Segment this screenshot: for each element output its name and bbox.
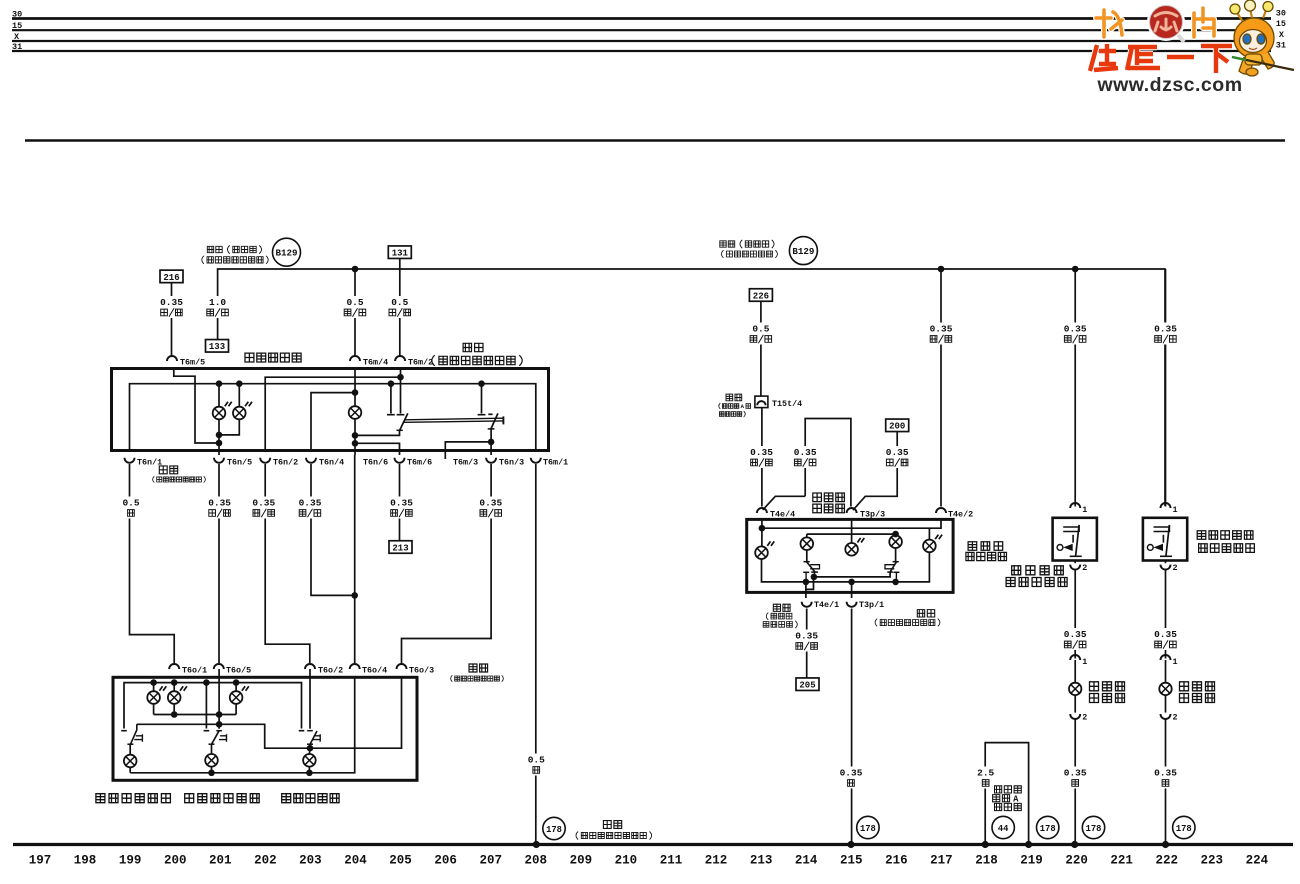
pin 1 passenger mirror switch xyxy=(1161,503,1171,508)
svg-text:223: 223 xyxy=(1201,854,1224,868)
label (在驾驶室线束内) xyxy=(202,256,268,264)
wire rail2 box3 xyxy=(806,534,808,537)
svg-text:209: 209 xyxy=(570,854,593,868)
label (在前部车内灯上) below box1 xyxy=(153,476,206,482)
svg-text:T6m/6: T6m/6 xyxy=(407,458,432,468)
svg-text:T3p/1: T3p/1 xyxy=(859,600,884,610)
current track 200 xyxy=(886,419,909,432)
wire T3p/1 to ground bus xyxy=(851,609,853,846)
svg-text:0.5: 0.5 xyxy=(528,755,545,766)
switch B box3 xyxy=(895,548,897,562)
wire to T4e/1 xyxy=(805,589,807,598)
label 阅读灯 xyxy=(813,504,845,513)
wire feed to T4e/2 xyxy=(940,269,942,507)
svg-text:178: 178 xyxy=(546,825,562,835)
pin T4e/2 xyxy=(936,508,946,513)
svg-text:31: 31 xyxy=(1276,40,1286,50)
wire 0.35 红/灰 xyxy=(1062,628,1088,650)
wire lamps bottom rail box2 xyxy=(153,704,155,715)
svg-text:178: 178 xyxy=(860,824,876,834)
label 插头 below box3 L xyxy=(773,604,790,611)
svg-text:T6o/1: T6o/1 xyxy=(182,666,207,676)
pin 2 driver mirror switch xyxy=(1070,565,1080,570)
svg-text:T6m/3: T6m/3 xyxy=(453,458,478,468)
label (在右前阅读灯上) xyxy=(875,619,940,627)
svg-text:0.5: 0.5 xyxy=(752,324,769,335)
sw1 contact tick xyxy=(121,730,127,732)
wire rail3 box3 xyxy=(814,572,890,577)
wire switch2 to T6n/3 xyxy=(490,429,492,455)
svg-text:0.35: 0.35 xyxy=(1064,324,1087,335)
wire 0.35 灰/蓝 xyxy=(207,497,233,519)
box: front reading light unit xyxy=(747,519,953,592)
wire 131 to T6m/2 xyxy=(399,259,401,357)
lamp pin 1 xyxy=(1070,655,1080,660)
lamp rear interior xyxy=(230,686,249,704)
wire rail A inside box1 xyxy=(265,377,400,450)
svg-text:T6n/5: T6n/5 xyxy=(227,458,252,468)
wire switch to lamp xyxy=(1074,569,1076,659)
svg-text:217: 217 xyxy=(930,854,953,868)
lamp vanity mirror passenger xyxy=(1159,683,1171,695)
connector pin T6m/2 xyxy=(395,356,405,361)
svg-text:215: 215 xyxy=(840,854,863,868)
wire mid rail box2 xyxy=(137,677,402,748)
svg-text:198: 198 xyxy=(74,854,97,868)
svg-text:B129: B129 xyxy=(792,246,814,257)
junction on feed rail (driver mirror drop) xyxy=(1072,266,1079,273)
wire switch to lamp xyxy=(1165,569,1167,659)
wire rail4 box3 xyxy=(762,552,930,582)
svg-text:205: 205 xyxy=(799,681,815,691)
wire 0.5 棕 xyxy=(523,754,549,776)
switch1 rear: blade xyxy=(131,724,137,744)
lamp driver reading 2 xyxy=(801,537,814,550)
lamp rear lower xyxy=(303,754,316,767)
pin T4e/1 xyxy=(802,602,812,607)
lamp rear-left lower xyxy=(124,755,137,768)
wire 0.35 红/黄 xyxy=(928,323,954,345)
current track 133 xyxy=(206,340,229,353)
lamp driver reading 1 xyxy=(755,541,774,559)
svg-text:T6o/5: T6o/5 xyxy=(226,666,251,676)
wire bottom rail box2 xyxy=(129,767,131,772)
connector B129 (right) xyxy=(789,237,817,265)
svg-text:1.0: 1.0 xyxy=(209,297,226,308)
label 化妆镜开关 xyxy=(1006,578,1067,587)
label (在后部车内灯上) xyxy=(451,675,504,681)
pin T6o/2 xyxy=(305,664,315,669)
lamp pin 1 xyxy=(1161,655,1171,660)
lamp rear left reading xyxy=(147,686,166,704)
svg-text:0.35: 0.35 xyxy=(795,631,818,642)
pin T6o/4 xyxy=(350,664,360,669)
svg-text:0.35: 0.35 xyxy=(886,447,909,458)
svg-text:205: 205 xyxy=(389,854,412,868)
wire T6m/2 to switch contact xyxy=(400,369,402,414)
label (在滑动车顶线束内) xyxy=(576,832,652,840)
wire label 0.5 棕/白 xyxy=(387,296,413,318)
svg-text:218: 218 xyxy=(975,854,998,868)
svg-text:226: 226 xyxy=(753,291,769,301)
svg-text:0.35: 0.35 xyxy=(1154,629,1177,640)
svg-text:X: X xyxy=(14,32,20,42)
wire T6m/4 drop xyxy=(354,269,356,356)
svg-text:0.5: 0.5 xyxy=(346,297,363,308)
ground 44 xyxy=(992,816,1014,838)
svg-text:197: 197 xyxy=(29,854,52,868)
label 照明灯 xyxy=(1090,694,1125,703)
svg-text:202: 202 xyxy=(254,854,277,868)
wire T6m/6 to 213 xyxy=(399,464,401,541)
wire 0.35 红/黄 xyxy=(1062,323,1088,345)
switch contact tick xyxy=(478,414,486,416)
ground 178 (roof harness) xyxy=(543,817,565,839)
lamp vanity mirror driver xyxy=(1069,683,1081,695)
connector T15t/4 xyxy=(755,396,768,408)
wire 0.35 红/绿 xyxy=(389,497,415,519)
svg-text:2: 2 xyxy=(1173,713,1178,723)
wire 0.35 棕 xyxy=(1153,767,1179,789)
svg-text:1: 1 xyxy=(1173,505,1178,515)
svg-text:X: X xyxy=(1279,30,1285,40)
svg-text:204: 204 xyxy=(344,854,367,868)
svg-text:0.35: 0.35 xyxy=(750,447,773,458)
label 前部车内灯 xyxy=(245,353,301,362)
lamp rear right reading xyxy=(168,686,187,704)
T4e/1 step xyxy=(806,577,814,590)
svg-text:0.35: 0.35 xyxy=(794,447,817,458)
svg-text:30: 30 xyxy=(12,10,22,20)
wire 0.35 棕/紫 xyxy=(478,497,504,519)
svg-text:213: 213 xyxy=(750,854,773,868)
svg-text:1: 1 xyxy=(1173,657,1178,667)
svg-text:T6n/6: T6n/6 xyxy=(363,458,388,468)
svg-text:T6o/4: T6o/4 xyxy=(362,666,387,676)
label 后部车内灯 xyxy=(282,794,339,803)
svg-text:T6n/2: T6n/2 xyxy=(273,458,298,468)
label 化妆镜 xyxy=(1090,682,1125,691)
wire 200 to T3p/3 xyxy=(853,432,897,511)
svg-text:0.35: 0.35 xyxy=(252,498,275,509)
label 插头 below box1 xyxy=(159,466,177,474)
svg-text:2: 2 xyxy=(1082,563,1087,573)
wire 2.5 棕 xyxy=(973,767,999,789)
box: rear interior light unit xyxy=(113,677,417,780)
svg-text:T6n/3: T6n/3 xyxy=(499,458,524,468)
svg-text:178: 178 xyxy=(1176,824,1192,834)
label 插头 below box3 R xyxy=(917,610,934,617)
pin T4e/4 xyxy=(757,508,767,513)
svg-text:T6n/1: T6n/1 xyxy=(137,458,162,468)
pin 1 driver mirror switch xyxy=(1070,503,1080,508)
pin T6o/3 xyxy=(397,664,407,669)
current track 131 xyxy=(388,246,411,259)
lamp pin 2 xyxy=(1070,714,1080,719)
label 化妆镜 xyxy=(1180,682,1215,691)
switch 2 blade xyxy=(491,413,498,429)
wire T6m/5 jog inside box1 xyxy=(174,369,219,444)
pin T6o/5 xyxy=(214,664,224,669)
label 接地 xyxy=(603,821,621,829)
svg-text:T6m/5: T6m/5 xyxy=(180,358,205,368)
svg-text:15: 15 xyxy=(12,21,22,31)
svg-text:0.35: 0.35 xyxy=(1154,768,1177,779)
label (在车内线束内) xyxy=(721,250,777,258)
svg-text:T6n/4: T6n/4 xyxy=(319,458,344,468)
svg-text:0.35: 0.35 xyxy=(1064,768,1087,779)
svg-text:www.dzsc.com: www.dzsc.com xyxy=(1096,74,1242,96)
bus line 30 xyxy=(12,17,1271,20)
junction on feed rail (T6m/4 drop) xyxy=(352,266,359,273)
ground 178 xyxy=(857,816,879,838)
label 分线器上) xyxy=(719,411,745,417)
wire 0.35 红/绿 xyxy=(794,630,820,652)
bus line 15 xyxy=(12,29,1271,31)
svg-text:T6m/4: T6m/4 xyxy=(363,358,388,368)
label 插头 (above box1) xyxy=(463,343,483,351)
pin T6o/1 xyxy=(169,664,179,669)
lamp: front dome light xyxy=(349,406,362,419)
label (在左侧A柱 xyxy=(719,403,751,409)
lamp5 stub xyxy=(928,528,930,540)
label 驾驶员 xyxy=(813,493,845,502)
label 副驾驶员侧 xyxy=(1197,531,1253,540)
switch arm tick xyxy=(397,429,403,431)
sw2 contact tick xyxy=(204,730,210,732)
stub rail B to switch2 contact xyxy=(481,384,483,414)
svg-text:210: 210 xyxy=(615,854,638,868)
wire: main interior-light feed rail xyxy=(218,269,1165,506)
wire 0.35 棕/白 xyxy=(251,497,277,519)
switch2 rear: blade from T6o/5 xyxy=(218,669,220,729)
switch contact tick xyxy=(387,414,395,416)
svg-text:T6o/3: T6o/3 xyxy=(409,666,434,676)
svg-text:199: 199 xyxy=(119,854,142,868)
wire lamp to ground bus xyxy=(1074,719,1076,846)
bus line X xyxy=(12,40,1271,42)
svg-text:0.35: 0.35 xyxy=(208,498,231,509)
svg-text:T15t/4: T15t/4 xyxy=(772,399,802,409)
wire 216 to T6m/5 xyxy=(171,283,173,356)
svg-text:216: 216 xyxy=(163,273,179,283)
wire T15t/4 to T4e/4 xyxy=(761,408,763,507)
lamp passenger reading 4 xyxy=(889,535,902,548)
wire 0.35 灰/蓝 xyxy=(792,446,818,468)
wire to T6m/6 xyxy=(355,443,400,455)
svg-text:B129: B129 xyxy=(275,248,297,259)
label 左侧A xyxy=(993,795,1010,802)
label (在前部车内灯上) xyxy=(432,355,522,366)
svg-text:T6m/2: T6m/2 xyxy=(408,358,433,368)
wire label 1.0 红/黄 xyxy=(205,296,231,318)
switch3 rear: blade from T6o/2 xyxy=(309,669,311,729)
junction on feed rail (T4e/2 drop) xyxy=(938,266,945,273)
wire lamp to T6n/6 xyxy=(354,419,356,455)
wire T4e/1 to 205 xyxy=(806,609,808,679)
connector B129 (left) xyxy=(273,238,301,266)
connector pin T6m/5 xyxy=(167,356,177,361)
svg-text:1: 1 xyxy=(1082,505,1087,515)
svg-text:216: 216 xyxy=(885,854,908,868)
wire pi-jumper to T4e/4 and T3p/3 xyxy=(805,419,851,507)
label 接地点 xyxy=(995,786,1022,793)
svg-text:200: 200 xyxy=(164,854,187,868)
ground 178 xyxy=(1037,816,1059,838)
svg-text:203: 203 xyxy=(299,854,322,868)
svg-text:221: 221 xyxy=(1110,854,1133,868)
wire 0.35 红/黄 xyxy=(1153,323,1179,345)
wire T6n/5 to T6o/5 xyxy=(218,464,220,664)
svg-text:0.35: 0.35 xyxy=(1064,629,1087,640)
wire stub rail B to switch contact xyxy=(390,384,392,414)
svg-text:0.35: 0.35 xyxy=(930,324,953,335)
wire 0.35 棕 xyxy=(838,767,864,789)
svg-text:133: 133 xyxy=(209,342,225,352)
label 照明灯 xyxy=(1180,694,1215,703)
switch: driver vanity mirror xyxy=(1053,518,1097,561)
current track 213 xyxy=(389,541,412,554)
switch A box3 xyxy=(806,550,808,562)
svg-text:2: 2 xyxy=(1173,563,1178,573)
sw3 contact tick xyxy=(299,730,305,732)
wire 0.35 灰/蓝 xyxy=(749,446,775,468)
lamp rear-right lower xyxy=(205,754,218,767)
wire ground point loop xyxy=(985,743,1028,845)
lamp front reading 3 xyxy=(845,538,864,556)
lamp pin 2 xyxy=(1161,714,1171,719)
svg-text:200: 200 xyxy=(889,422,905,432)
label 左后部阅读灯 xyxy=(96,794,170,803)
switch contact tick xyxy=(397,414,405,416)
wire rail B inside box1 xyxy=(130,384,536,451)
svg-text:T4e/1: T4e/1 xyxy=(814,600,839,610)
wire label 0.5 红/黄 xyxy=(342,296,368,318)
svg-text:213: 213 xyxy=(392,543,408,553)
ground 178 xyxy=(1173,816,1195,838)
svg-text:0.5: 0.5 xyxy=(122,498,139,509)
wire 0.5 棕 xyxy=(118,497,144,519)
wire feed to driver mirror switch xyxy=(1074,269,1076,507)
pin T3p/1 xyxy=(847,602,857,607)
wire T6m/3 to junction xyxy=(445,442,491,459)
label 员阅读灯 xyxy=(966,552,1007,560)
wire rail1 box3 xyxy=(761,519,763,546)
svg-text:0.5: 0.5 xyxy=(391,297,408,308)
label 插头 above box2 xyxy=(469,664,488,672)
svg-text:212: 212 xyxy=(705,854,728,868)
lamp passenger reading 5 xyxy=(923,535,942,553)
svg-text:208: 208 xyxy=(525,854,548,868)
current track 205 xyxy=(796,678,819,691)
connector pins below box1 xyxy=(125,458,135,463)
svg-text:220: 220 xyxy=(1065,854,1088,868)
switch linkage bar xyxy=(404,418,503,420)
wire T6n/3 to T6o/3 xyxy=(402,464,492,664)
svg-text:131: 131 xyxy=(392,249,409,259)
svg-text:T4e/4: T4e/4 xyxy=(770,509,795,519)
svg-text:30: 30 xyxy=(1276,9,1286,19)
switch: passenger vanity mirror xyxy=(1143,518,1187,561)
label 柱上部 xyxy=(995,803,1022,810)
svg-text:201: 201 xyxy=(209,854,232,868)
wire 0.5 灰/蓝 xyxy=(748,323,774,345)
lamp: front interior light left xyxy=(213,402,232,420)
label 副驾驶 xyxy=(968,542,1003,551)
svg-text:0.35: 0.35 xyxy=(1154,324,1177,335)
wire T6n/2 to T6o/2 xyxy=(265,464,310,664)
label 驾驶员侧 xyxy=(1012,566,1064,575)
svg-text:0.35: 0.35 xyxy=(479,498,502,509)
svg-text:31: 31 xyxy=(12,42,22,52)
sw2 contact stub xyxy=(205,683,207,729)
wire T6m/4 through to lamp xyxy=(354,369,356,407)
current track 226 xyxy=(749,289,772,302)
wire label 0.35 灰/蓝 xyxy=(159,296,185,318)
label (在左前 xyxy=(766,613,792,620)
logo watermark dzsc xyxy=(1090,0,1294,96)
box: front interior light unit xyxy=(112,369,549,451)
label 化妆镜开关 xyxy=(1199,544,1255,553)
wire T6m/1 to ground bus xyxy=(535,464,537,845)
label 插头 (A pillar) xyxy=(726,394,742,401)
lamp: front interior light right xyxy=(233,402,252,420)
wire 0.35 红/黄 xyxy=(297,497,323,519)
svg-text:222: 222 xyxy=(1155,854,1178,868)
svg-text:15: 15 xyxy=(1276,19,1286,29)
wire 0.35 红/灰 xyxy=(1153,628,1179,650)
wire rail C (T6n/4 to T6m/4) xyxy=(311,393,355,451)
wire 0.35 棕 xyxy=(1062,767,1088,789)
svg-text:2: 2 xyxy=(1082,713,1087,723)
label 连接(车内灯) right xyxy=(720,240,774,248)
svg-text:0.35: 0.35 xyxy=(840,768,863,779)
svg-text:T6m/1: T6m/1 xyxy=(543,458,568,468)
svg-text:1: 1 xyxy=(1082,657,1087,667)
wire 0.35 灰/蓝 xyxy=(884,446,910,468)
label 连接(车内灯) left xyxy=(207,245,261,253)
svg-text:2.5: 2.5 xyxy=(977,768,994,779)
svg-text:207: 207 xyxy=(479,854,502,868)
svg-text:219: 219 xyxy=(1020,854,1043,868)
wire T6n/1 to T6o/1 xyxy=(130,464,175,664)
label 右后部阅读灯 xyxy=(185,794,260,803)
wire feed to passenger mirror switch xyxy=(1165,269,1167,507)
label 阅读灯上) xyxy=(763,621,797,628)
pin T3p/3 xyxy=(847,508,857,513)
wire T6n/4 jog xyxy=(311,464,355,595)
ground 178 xyxy=(1082,816,1104,838)
svg-text:0.35: 0.35 xyxy=(299,498,322,509)
svg-text:224: 224 xyxy=(1246,854,1269,868)
wire 226 down xyxy=(760,301,762,396)
wire T6n/6/T6o/4 xyxy=(354,455,356,664)
svg-text:0.35: 0.35 xyxy=(160,297,183,308)
separator line xyxy=(25,139,1285,142)
svg-text:206: 206 xyxy=(434,854,457,868)
svg-text:0.35: 0.35 xyxy=(390,498,413,509)
svg-text:T3p/3: T3p/3 xyxy=(860,509,885,519)
svg-text:44: 44 xyxy=(998,824,1009,834)
svg-text:T4e/2: T4e/2 xyxy=(948,509,973,519)
wire top rail box2 xyxy=(124,683,302,729)
pin 2 passenger mirror switch xyxy=(1161,565,1171,570)
switch1 side contact xyxy=(134,734,142,742)
switch 1 blade (front dome switch) xyxy=(400,413,408,430)
bus line 31 xyxy=(12,50,1271,52)
connector pin T6m/4 xyxy=(350,356,360,361)
wire T6n/5 drop xyxy=(218,443,220,455)
